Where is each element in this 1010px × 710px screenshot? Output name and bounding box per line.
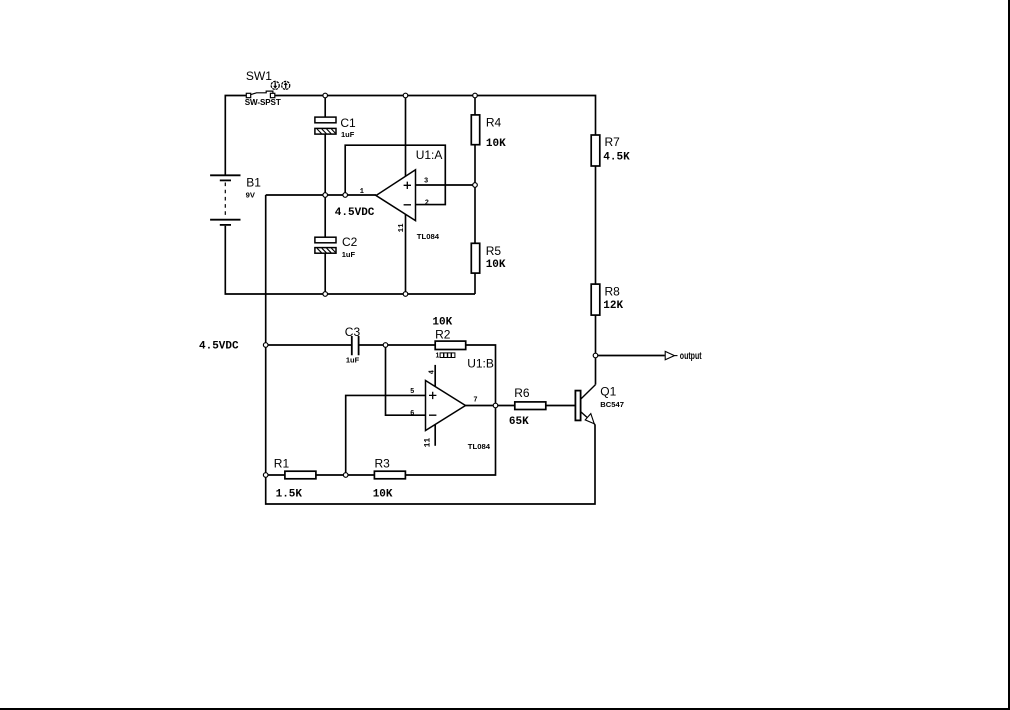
svg-text:10K: 10K — [486, 138, 506, 150]
U1:B pin 6 — [410, 410, 414, 418]
U1:A pin 3 — [424, 177, 428, 185]
wire C3 to node — [359, 344, 385, 346]
wire R5 bottom — [474, 273, 476, 294]
junction top rail U1:A pin4 — [403, 93, 408, 98]
R6 value 65K — [509, 416, 529, 428]
resistor R4 — [471, 115, 479, 145]
capacitor C2 — [315, 237, 336, 253]
wire U1:B pin4 stub — [434, 365, 436, 388]
resistor R2 — [435, 341, 466, 349]
junction 0V rail U1:A pin11 — [403, 292, 408, 297]
wire U1:A pin4 stub — [405, 96, 407, 177]
C2 value 1uF — [342, 250, 356, 259]
U1:B pin 5 — [410, 388, 414, 396]
junction C3 R2 pin6 — [383, 343, 388, 348]
R8 value 12K — [603, 300, 623, 312]
svg-text:TL084: TL084 — [468, 442, 491, 451]
R2 subvalue 10000 — [436, 353, 455, 360]
op-amp U1:A — [376, 170, 416, 221]
svg-text:1uF: 1uF — [346, 355, 360, 364]
junction pin1 C column — [323, 193, 328, 198]
resistor R1 — [285, 471, 316, 479]
svg-text:R4: R4 — [486, 115, 502, 129]
svg-text:10K: 10K — [373, 489, 393, 501]
svg-text:Q1: Q1 — [600, 384, 616, 398]
transistor Q1 — [575, 385, 595, 425]
wire U1:B pin6 branch — [386, 345, 426, 415]
svg-text:R2: R2 — [435, 328, 451, 342]
svg-text:U1:A: U1:A — [416, 148, 443, 162]
svg-text:R8: R8 — [605, 285, 621, 299]
U1:B pin 7 — [473, 397, 477, 405]
4.5VDC net label lower — [199, 340, 239, 352]
junction R1 R3 pin5 — [343, 473, 348, 478]
resistor R7 — [591, 135, 600, 166]
resistor R6 — [515, 402, 546, 410]
U1:B pin 11 — [423, 438, 432, 448]
R3 value 10K — [373, 489, 393, 501]
B1 value 9V — [246, 190, 256, 199]
wire R8 to Q1 collector — [595, 315, 597, 385]
svg-text:2: 2 — [425, 200, 429, 208]
svg-text:1uF: 1uF — [342, 250, 356, 259]
label R7 — [605, 135, 621, 149]
svg-text:C1: C1 — [340, 116, 356, 130]
svg-text:C2: C2 — [342, 235, 358, 249]
svg-text:4: 4 — [428, 370, 436, 374]
wire R4 bottom to R5 top — [474, 145, 476, 244]
svg-text:10K: 10K — [432, 316, 452, 328]
svg-text:6: 6 — [410, 410, 414, 418]
wire top 9V rail SW1 to R7 — [275, 96, 596, 136]
label Q1 — [600, 384, 616, 398]
svg-text:BC547: BC547 — [600, 400, 624, 409]
wire R3 to U1:B output node — [406, 406, 496, 476]
label R4 — [486, 115, 502, 129]
wire R7 to R8 — [595, 166, 597, 284]
junction R1 left 0V — [263, 473, 268, 478]
junction U1:B output — [493, 403, 498, 408]
svg-text:1.5K: 1.5K — [276, 489, 303, 501]
wire R1 to R3 — [316, 474, 374, 476]
wire node to R2 — [386, 344, 436, 346]
R7 value 4.5K — [603, 152, 630, 164]
output terminal arrow — [665, 351, 677, 359]
svg-text:12K: 12K — [603, 300, 623, 312]
junction top rail R4 — [473, 93, 478, 98]
svg-text:R7: R7 — [605, 135, 621, 149]
label R5 — [486, 244, 502, 258]
4.5VDC net label upper — [335, 207, 375, 219]
wire U1:B pin5 branch — [346, 395, 426, 475]
label R8 — [605, 285, 621, 299]
U1:A pin 2 — [425, 200, 429, 208]
svg-text:U1:B: U1:B — [467, 357, 494, 371]
label SW1 — [246, 69, 272, 83]
resistor R3 — [374, 471, 405, 479]
battery B1 — [210, 175, 240, 225]
wire U1:A feedback pin1 to pin2 — [345, 145, 445, 204]
label R3 — [375, 457, 391, 471]
label U1:B — [467, 357, 494, 371]
wire R6 to Q1 base — [546, 405, 576, 407]
svg-text:65K: 65K — [509, 416, 529, 428]
label B1 — [246, 176, 261, 190]
label C2 — [342, 235, 358, 249]
wire 4.5VDC vertical — [265, 195, 267, 475]
svg-text:SW-SPST: SW-SPST — [245, 98, 281, 107]
label R6 — [514, 386, 530, 400]
C3 value 1uF — [346, 355, 360, 364]
wire U1:A pin1 output — [266, 194, 376, 196]
svg-text:1uF: 1uF — [341, 130, 355, 139]
wire C1 top — [324, 96, 326, 118]
svg-text:TL084: TL084 — [417, 232, 440, 241]
wire U1:A pin11 to 0V rail — [405, 214, 407, 294]
U1:B part TL084 — [468, 442, 491, 451]
wire 0V rail battery- to R5 — [225, 226, 475, 294]
svg-text:R1: R1 — [274, 457, 290, 471]
resistor R5 — [471, 243, 479, 273]
wire R4 top — [474, 96, 476, 115]
label U1:A — [416, 148, 443, 162]
wire 0V bottom rail to Q1 emitter — [266, 425, 595, 505]
U1:A pin 11 — [398, 223, 406, 233]
wire 4.5VDC to C3 — [266, 344, 351, 346]
label C1 — [340, 116, 356, 130]
op-amp U1:B — [426, 381, 466, 431]
R5 value 10K — [486, 259, 506, 271]
svg-text:output: output — [680, 350, 702, 362]
label R2 — [435, 328, 451, 342]
switch SW1 — [246, 91, 274, 98]
svg-text:1: 1 — [436, 353, 440, 360]
svg-text:11: 11 — [423, 438, 432, 448]
wire battery+ to SW1 — [225, 96, 246, 176]
svg-text:11: 11 — [398, 223, 406, 233]
R4 value 10K — [486, 138, 506, 150]
svg-text:5: 5 — [410, 388, 414, 396]
svg-text:4.5VDC: 4.5VDC — [335, 207, 375, 219]
R2 value 10K — [432, 316, 452, 328]
junction 0V rail C2 — [323, 292, 328, 297]
wire U1:B pin7 — [466, 405, 496, 407]
wire R2 to U1:B output node — [466, 345, 496, 406]
svg-text:4.5VDC: 4.5VDC — [199, 340, 239, 352]
wire C2 top — [324, 195, 326, 237]
capacitor C1 — [315, 117, 336, 134]
junction pin3 divider — [473, 183, 478, 188]
U1:B pin 4 — [428, 370, 436, 374]
svg-text:4.5K: 4.5K — [603, 152, 630, 164]
svg-text:1: 1 — [360, 188, 364, 196]
R1 value 1.5K — [276, 489, 303, 501]
wire U1:B pin11 stub — [434, 425, 436, 446]
wire C1 bottom to 4.5VDC node — [324, 134, 326, 195]
svg-text:R6: R6 — [514, 386, 530, 400]
svg-text:SW1: SW1 — [246, 69, 272, 83]
U1:A part TL084 — [417, 232, 440, 241]
svg-text:C3: C3 — [345, 325, 361, 339]
capacitor C3 — [352, 336, 359, 355]
Q1 value BC547 — [600, 400, 624, 409]
wire output node to R6 — [496, 405, 515, 407]
label R1 — [274, 457, 290, 471]
label C3 — [345, 325, 361, 339]
svg-text:3: 3 — [424, 177, 428, 185]
svg-text:R5: R5 — [486, 244, 502, 258]
svg-text:9V: 9V — [246, 190, 256, 199]
wire output — [596, 355, 665, 357]
wire U1:A pin3 to divider — [416, 184, 476, 186]
U1:A pin 1 — [360, 188, 364, 196]
junction pin1 feedback — [343, 193, 348, 198]
resistor R8 — [591, 284, 600, 315]
output net label — [680, 350, 702, 362]
wire R1 left — [266, 474, 285, 476]
C1 value 1uF — [341, 130, 355, 139]
svg-text:R3: R3 — [375, 457, 391, 471]
junction top rail C1 — [323, 93, 328, 98]
svg-text:7: 7 — [473, 397, 477, 405]
svg-text:10K: 10K — [486, 259, 506, 271]
svg-text:B1: B1 — [246, 176, 261, 190]
switch SW1 actuation arrows — [271, 81, 290, 89]
SW1 value SW-SPST — [245, 98, 281, 107]
junction 4.5VDC lower — [263, 343, 268, 348]
junction output node — [593, 353, 598, 358]
wire C2 bottom to 0V rail — [324, 253, 326, 294]
